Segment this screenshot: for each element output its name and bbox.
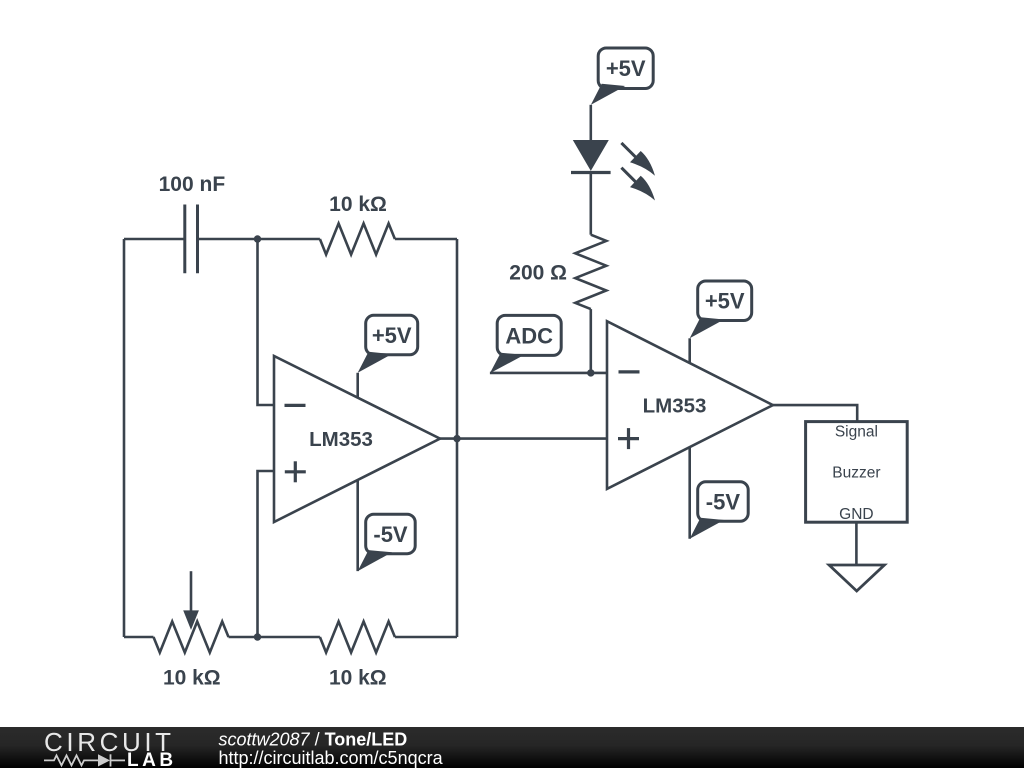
svg-text:Buzzer: Buzzer <box>832 465 880 482</box>
footer bar <box>0 727 1024 768</box>
wire node A to op-amp inverting input <box>258 239 275 405</box>
wire U1 V+ supply stub <box>356 373 359 398</box>
wire left rail vertical <box>123 239 126 637</box>
wire LED cathode to R3 <box>589 173 592 235</box>
wire right rail vertical <box>456 239 459 637</box>
wire R3 to node C <box>589 309 592 373</box>
wire pot to node B <box>229 636 320 639</box>
wire buzzer GND to ground <box>855 522 858 565</box>
junction node B dot <box>254 633 261 640</box>
svg-text:+5V: +5V <box>372 323 412 348</box>
wire top-left horizontal to capacitor <box>124 238 185 241</box>
svg-text:+5V: +5V <box>705 289 745 314</box>
power flag -5V (U1 supply) <box>358 550 392 571</box>
svg-text:10 kΩ: 10 kΩ <box>329 193 387 216</box>
resistor R3 200 Ω (vertical) <box>575 235 606 309</box>
wire U1 output to U2 non-inverting input <box>440 437 607 440</box>
wire U2 output to buzzer <box>773 405 857 422</box>
svg-text:LM353: LM353 <box>643 395 707 418</box>
op-amp U1 plus symbol <box>285 461 306 482</box>
svg-text:10 kΩ: 10 kΩ <box>329 667 387 690</box>
buzzer module box <box>806 422 908 523</box>
svg-text:LM353: LM353 <box>309 428 373 451</box>
net flag ADC <box>490 353 524 374</box>
resistor R2 10 kΩ (bottom) <box>320 622 395 653</box>
svg-text:ADC: ADC <box>505 323 553 348</box>
power flag +5V (U2 supply) <box>690 317 724 338</box>
svg-text:+5V: +5V <box>606 56 646 81</box>
svg-text:http://circuitlab.com/c5nqcra: http://circuitlab.com/c5nqcra <box>219 748 444 768</box>
wire capacitor to node A <box>198 238 320 241</box>
junction node A dot <box>254 235 261 242</box>
svg-text:LAB: LAB <box>127 750 177 768</box>
op-amp U2 plus symbol <box>618 428 639 449</box>
op-amp U1 LM353 triangle <box>274 356 440 522</box>
svg-text:10 kΩ: 10 kΩ <box>163 667 221 690</box>
wire U2 V- supply stub <box>688 447 691 539</box>
resistor R1 10 kΩ (top feedback) <box>320 224 395 255</box>
junction node U1 output dot <box>453 435 460 442</box>
svg-text:-5V: -5V <box>706 490 741 515</box>
potentiometer wiper arrow <box>190 571 193 612</box>
junction node C dot (ADC net) <box>587 369 594 376</box>
op-amp U2 LM353 triangle <box>607 321 773 489</box>
svg-text:-5V: -5V <box>373 522 408 547</box>
svg-text:200 Ω: 200 Ω <box>509 262 567 285</box>
op-amp U1 minus symbol <box>285 404 306 407</box>
svg-text:100 nF: 100 nF <box>159 173 226 196</box>
wire R1 to right rail <box>395 238 457 241</box>
svg-text:Signal: Signal <box>835 424 878 441</box>
wire U2 V+ supply stub <box>688 338 691 363</box>
power flag +5V (U1 supply) <box>358 352 392 373</box>
wire ADC to U2 inverting input <box>490 372 607 375</box>
ground symbol <box>829 565 884 591</box>
wire +5V flag to LED anode <box>589 105 592 140</box>
LED light arrow 2 <box>621 168 635 182</box>
logo resistor-diode glyph <box>44 754 125 766</box>
wire node B to op-amp non-inverting input <box>258 471 275 637</box>
op-amp U2 minus symbol <box>619 370 640 373</box>
LED D1 triangle <box>573 140 609 171</box>
svg-text:GND: GND <box>839 506 873 523</box>
wire R2 to right rail <box>395 636 457 639</box>
power flag +5V (LED supply, top) <box>591 84 625 105</box>
svg-text:scottw2087 / Tone/LED: scottw2087 / Tone/LED <box>219 730 408 750</box>
wire bottom-left to potentiometer <box>124 636 154 639</box>
capacitor C1 100 nF <box>185 205 198 274</box>
wire U1 V- supply stub <box>356 480 359 571</box>
LED D1 cathode bar <box>571 171 611 174</box>
power flag -5V (U2 supply) <box>690 518 724 539</box>
LED light arrow 1 <box>621 143 635 157</box>
potentiometer R4 10 kΩ <box>154 622 229 653</box>
